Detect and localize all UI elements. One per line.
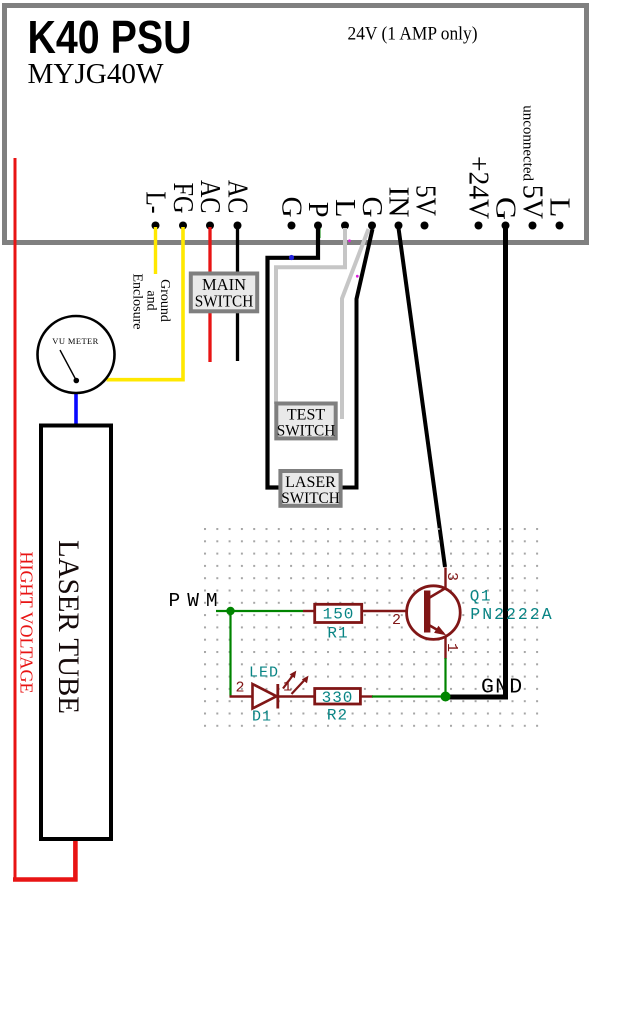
transistor Q1 base bar: [424, 591, 430, 633]
svg-text:P: P: [302, 202, 333, 218]
terminal dot IN: [395, 222, 403, 230]
svg-text:PN2222A: PN2222A: [470, 605, 553, 624]
schematic grid dots: [204, 528, 541, 729]
svg-text:+24V: +24V: [463, 156, 494, 219]
LED arrow 1: [283, 675, 294, 689]
svg-text:3: 3: [443, 572, 460, 581]
LASER SWITCH box: [280, 471, 340, 506]
wire gray L to TEST SWITCH left: [276, 228, 345, 404]
green stub under P dot: [319, 228, 321, 238]
magenta speck 1: [348, 239, 351, 242]
junction GND node: [441, 692, 451, 702]
transistor Q1 emitter arrow: [434, 626, 446, 636]
svg-text:2: 2: [235, 680, 244, 697]
VU meter circle: [38, 316, 115, 393]
wire green emitter to junction: [444, 658, 446, 694]
terminal dot L switched: [341, 222, 349, 230]
svg-text:MYJG40W: MYJG40W: [28, 59, 164, 90]
wire black G2 to LASER SWITCH right: [342, 229, 373, 488]
wire blue VU meter to tube: [74, 392, 78, 425]
MAIN SWITCH box: [191, 274, 257, 312]
svg-text:G: G: [356, 197, 387, 218]
svg-text:L: L: [544, 198, 575, 218]
terminal dot 5V unconnected: [529, 222, 537, 230]
svg-text:SWITCH: SWITCH: [195, 292, 254, 311]
wire green PWM to R1: [216, 610, 303, 612]
terminal dot L-: [152, 222, 160, 230]
svg-text:LASER TUBE: LASER TUBE: [52, 540, 85, 714]
svg-text:AC: AC: [194, 180, 225, 214]
VU meter needle: [60, 350, 76, 381]
wire black AC2 to main switch: [236, 227, 239, 361]
blue junction dot on P wire: [289, 255, 294, 260]
wire gray G2 to TEST SWITCH right: [342, 229, 369, 419]
LED arrow 2: [292, 680, 306, 695]
svg-text:LED: LED: [249, 665, 279, 682]
wire red AC1 to main switch: [208, 227, 211, 362]
svg-text:150: 150: [323, 606, 355, 624]
junction PWM node: [226, 607, 234, 615]
transistor Q1 emitter pin: [444, 637, 446, 659]
svg-text:PWM: PWM: [169, 590, 225, 612]
transistor Q1 emitter diagonal: [428, 625, 444, 634]
svg-text:K40 PSU: K40 PSU: [28, 11, 192, 63]
resistor R2 right pin: [360, 695, 373, 697]
svg-text:L: L: [329, 199, 360, 218]
terminal dot G1: [288, 222, 296, 230]
svg-text:LASER: LASER: [285, 474, 336, 491]
terminal dot P: [314, 222, 322, 230]
svg-text:Q1: Q1: [470, 588, 492, 606]
wire red up into tube bottom: [73, 840, 78, 882]
wire green R2 to GND junction: [372, 695, 445, 697]
TEST SWITCH box: [276, 404, 335, 439]
terminal dot FG: [179, 222, 187, 230]
svg-text:GND: GND: [481, 676, 523, 700]
svg-text:5V: 5V: [410, 185, 441, 216]
svg-text:SWITCH: SWITCH: [277, 423, 336, 440]
svg-text:TEST: TEST: [287, 407, 325, 424]
svg-text:1: 1: [443, 643, 460, 652]
transistor Q1 collector diagonal: [428, 588, 447, 599]
wire yellow FG to VU meter: [107, 227, 184, 380]
resistor R1 pins: [303, 610, 314, 612]
svg-text:L-: L-: [140, 192, 171, 214]
svg-text:AC: AC: [222, 180, 253, 214]
wire red bottom horizontal: [13, 877, 78, 882]
transistor Q1 collector pin: [444, 568, 446, 589]
wire black IN diagonal to Q1 collector: [399, 228, 446, 567]
wire red high voltage from PSU to tube bottom: [14, 158, 17, 882]
LED pin 2: [230, 695, 254, 697]
svg-text:R2: R2: [327, 707, 348, 725]
svg-text:SWITCH: SWITCH: [281, 490, 340, 507]
resistor R1 box: [315, 604, 362, 622]
svg-text:G: G: [490, 197, 521, 220]
svg-text:2: 2: [392, 612, 401, 629]
terminal dot +24V: [475, 222, 483, 230]
wire green junction down to LED: [229, 611, 231, 697]
magenta speck 2: [356, 275, 359, 278]
svg-text:24V (1 AMP only): 24V (1 AMP only): [348, 24, 478, 45]
terminal dot AC1: [206, 222, 214, 230]
wire thick black G3 down to GND: [443, 228, 506, 697]
LED cathode bar: [276, 684, 279, 709]
LED triangle D1: [253, 684, 277, 709]
terminal dot 5V: [421, 222, 429, 230]
terminal dot L mains: [556, 222, 564, 230]
wire yellow stub from L- (Ground and Enclosure): [154, 227, 157, 274]
svg-text:R1: R1: [327, 625, 348, 643]
resistor R2 box: [315, 689, 361, 705]
terminal dot AC2: [234, 222, 242, 230]
LED pin1 to R2: [278, 695, 315, 697]
svg-text:and: and: [144, 290, 159, 310]
svg-text:G: G: [276, 197, 307, 218]
svg-text:FG: FG: [167, 183, 198, 214]
PSU enclosure box: [5, 6, 587, 243]
terminal dot G2: [368, 222, 376, 230]
svg-text:D1: D1: [252, 709, 272, 726]
wire black P to LASER SWITCH left: [268, 228, 319, 488]
svg-text:VU METER: VU METER: [52, 336, 98, 346]
transistor Q1 circle: [407, 586, 461, 640]
svg-text:Enclosure: Enclosure: [130, 274, 145, 330]
terminal dot G3: [502, 222, 510, 230]
svg-text:IN: IN: [383, 187, 414, 218]
svg-text:HIGHT VOLTAGE: HIGHT VOLTAGE: [17, 552, 37, 694]
LASER TUBE body: [41, 426, 111, 840]
svg-text:330: 330: [322, 689, 354, 707]
